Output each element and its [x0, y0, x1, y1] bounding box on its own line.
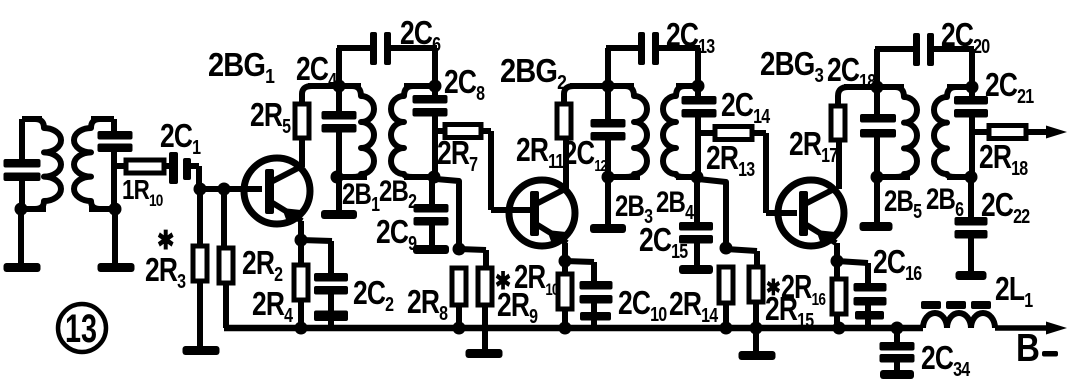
- svg-text:13: 13: [65, 306, 97, 351]
- svg-text:2BG2: 2BG2: [500, 52, 566, 93]
- svg-text:2BG3: 2BG3: [760, 46, 824, 87]
- svg-text:2BG1: 2BG1: [208, 46, 274, 87]
- svg-text:B: B: [1016, 325, 1039, 369]
- svg-text:✱: ✱: [157, 226, 175, 255]
